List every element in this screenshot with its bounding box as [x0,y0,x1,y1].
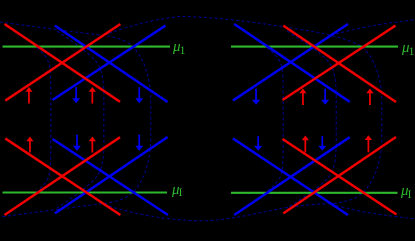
blue branch D' bottom-left descending [53,139,169,215]
dashed bottom arch between pairs [104,204,334,221]
spin-down arrow blue bottom-right 1 [254,136,262,151]
spin-up arrow red top-right 2 [366,89,373,106]
chemical potential line muI bottom-right [231,192,398,194]
spin-up arrow red bottom-right 1 [302,136,309,153]
chemical potential line mu1 top-right [231,46,398,48]
label mu_I bottom-left [172,183,183,198]
blue branch A2 top-right descending [234,24,350,102]
spin-down arrow blue top-left 2 [135,87,143,103]
blue branch A2' bottom-right ascending [234,137,350,215]
spin-down arrow blue top-right 1 [252,89,260,105]
spin-up arrow red bottom-left 1 [26,137,33,153]
dashed bottom-right edge tail [336,206,415,220]
blue branch B2 top-right ascending [233,24,348,101]
label mu_1 top-right [402,41,415,56]
blue branch D top-left ascending [53,26,166,100]
dashed band arc V2 right-middle [287,31,336,208]
chemical potential line muI bottom-left [3,191,168,193]
spin-up arrow red bottom-right 2 [365,135,372,152]
spin-down arrow blue bottom-left 2 [135,135,143,151]
red branch D2 top-right ascending [283,26,396,100]
chemical potential line mu1 top-left [3,46,171,48]
red branch B top-left ascending [5,24,120,101]
red branch A' bottom-left ascending [5,137,121,215]
dashed top-right edge tail [336,20,415,35]
blue branch B2' bottom-right descending [233,138,348,215]
red branch C2' bottom-right ascending [283,137,396,213]
spin-down arrow blue bottom-right 2 [318,136,326,151]
red branch A top-left descending [5,24,121,102]
label mu_I bottom-right [401,184,412,199]
dashed band arc V1 left-inner [37,48,51,192]
spin-down arrow blue top-left 1 [72,87,80,103]
spin-down arrow blue top-right 2 [321,89,329,105]
dashed top arch between pairs [104,16,382,203]
spin-down arrow blue bottom-left 1 [73,135,81,151]
spin-up arrow red top-left 2 [89,87,96,104]
blue branch C top-left descending [55,26,168,102]
dashed band arc V1 right-inner [267,48,283,192]
spin-up arrow red top-right 1 [299,89,306,106]
red branch B' bottom-left descending [5,138,120,215]
label mu_1 top-left [173,40,186,55]
red branch C2 top-right descending [283,26,396,102]
spin-up arrow red top-left 1 [25,87,32,104]
red branch D2' bottom-right descending [283,139,397,215]
spin-up arrow red bottom-left 2 [89,137,96,153]
dashed band arc V2 left-middle [57,31,104,208]
dashed band arc V3 left-outer [0,22,151,217]
blue branch C' bottom-left ascending [55,137,168,213]
